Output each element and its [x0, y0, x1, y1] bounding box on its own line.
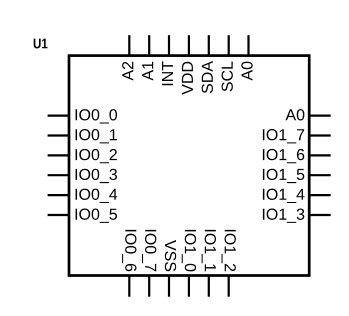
pin SCL (top)	[222, 35, 233, 91]
pin IO0_3 (left)	[48, 169, 117, 183]
pin IO1_1 (bottom)	[202, 230, 216, 297]
IC U1 body	[69, 56, 309, 276]
pin IO1_5 (right)	[263, 169, 331, 183]
pin IO1_6 (right)	[263, 149, 331, 163]
pin IO0_6 (bottom)	[122, 230, 136, 297]
pin IO0_0 (left)	[48, 109, 117, 123]
pin IO0_2 (left)	[48, 149, 117, 163]
pin VDD (top)	[182, 35, 193, 95]
pin IO0_4 (left)	[48, 189, 118, 203]
pin IO1_4 (right)	[263, 189, 331, 203]
pin INT (top)	[162, 35, 173, 85]
pin IO1_3 (right)	[263, 209, 331, 223]
pin IO0_1 (left)	[48, 129, 117, 143]
pin IO1_2 (bottom)	[222, 230, 236, 297]
pin IO1_7 (right)	[263, 129, 331, 143]
pin A0 (right)	[285, 109, 330, 120]
pin IO0_5 (left)	[48, 209, 117, 223]
pin VSS (bottom)	[165, 240, 176, 297]
pin SDA (top)	[202, 35, 213, 93]
pin IO0_7 (bottom)	[142, 230, 156, 297]
pin IO1_0 (bottom)	[182, 230, 196, 297]
pin A2 (top)	[122, 35, 133, 80]
pin A1 (top)	[142, 35, 153, 80]
pin A0 (top)	[241, 35, 252, 80]
reference designator U1	[34, 39, 48, 49]
